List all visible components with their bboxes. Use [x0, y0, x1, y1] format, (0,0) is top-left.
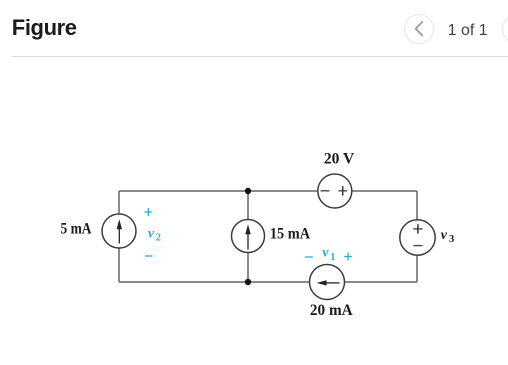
label v2 polarity plus (cyan)	[144, 208, 152, 216]
current source I2 15 mA (up arrow)	[232, 220, 265, 253]
svg-text:v: v	[441, 228, 448, 243]
voltage source 20 V (minus left, plus right)	[318, 174, 352, 208]
voltage source v3 (plus top, minus bottom)	[400, 220, 435, 255]
svg-text:20 V: 20 V	[324, 151, 355, 168]
current source I1 5 mA (up arrow)	[102, 214, 136, 248]
wire bottom rail	[119, 281, 417, 283]
nav button previous (left chevron)	[404, 14, 434, 44]
label v1 (cyan)	[322, 246, 335, 263]
node B (junction dot, bottom of middle branch)	[245, 279, 251, 285]
nav button next (clipped at right edge)	[502, 14, 508, 44]
label v2 (cyan)	[148, 226, 161, 243]
divider rule	[12, 56, 508, 57]
wire right branch	[416, 191, 418, 282]
label v3	[441, 228, 454, 245]
svg-text:v: v	[322, 246, 329, 261]
svg-text:20 mA: 20 mA	[310, 302, 353, 319]
label v1 polarity minus (cyan)	[305, 256, 313, 258]
svg-text:2: 2	[156, 232, 161, 243]
wire middle branch	[247, 191, 249, 282]
node A (junction dot, top of middle branch)	[245, 188, 251, 194]
wire left branch	[118, 191, 120, 282]
svg-text:15 mA: 15 mA	[270, 226, 311, 243]
wire top (node between 20V source and top rail)	[119, 190, 417, 192]
header title "Figure"	[12, 15, 77, 41]
svg-text:3: 3	[449, 234, 454, 245]
page indicator "1 of 1"	[448, 22, 488, 40]
label v2 polarity minus (cyan)	[145, 255, 153, 257]
svg-text:v: v	[148, 226, 155, 241]
label v1 polarity plus (cyan)	[344, 253, 352, 261]
current source I3 20 mA (left arrow)	[310, 265, 345, 300]
svg-text:1: 1	[330, 252, 335, 263]
svg-text:5 mA: 5 mA	[61, 221, 92, 238]
